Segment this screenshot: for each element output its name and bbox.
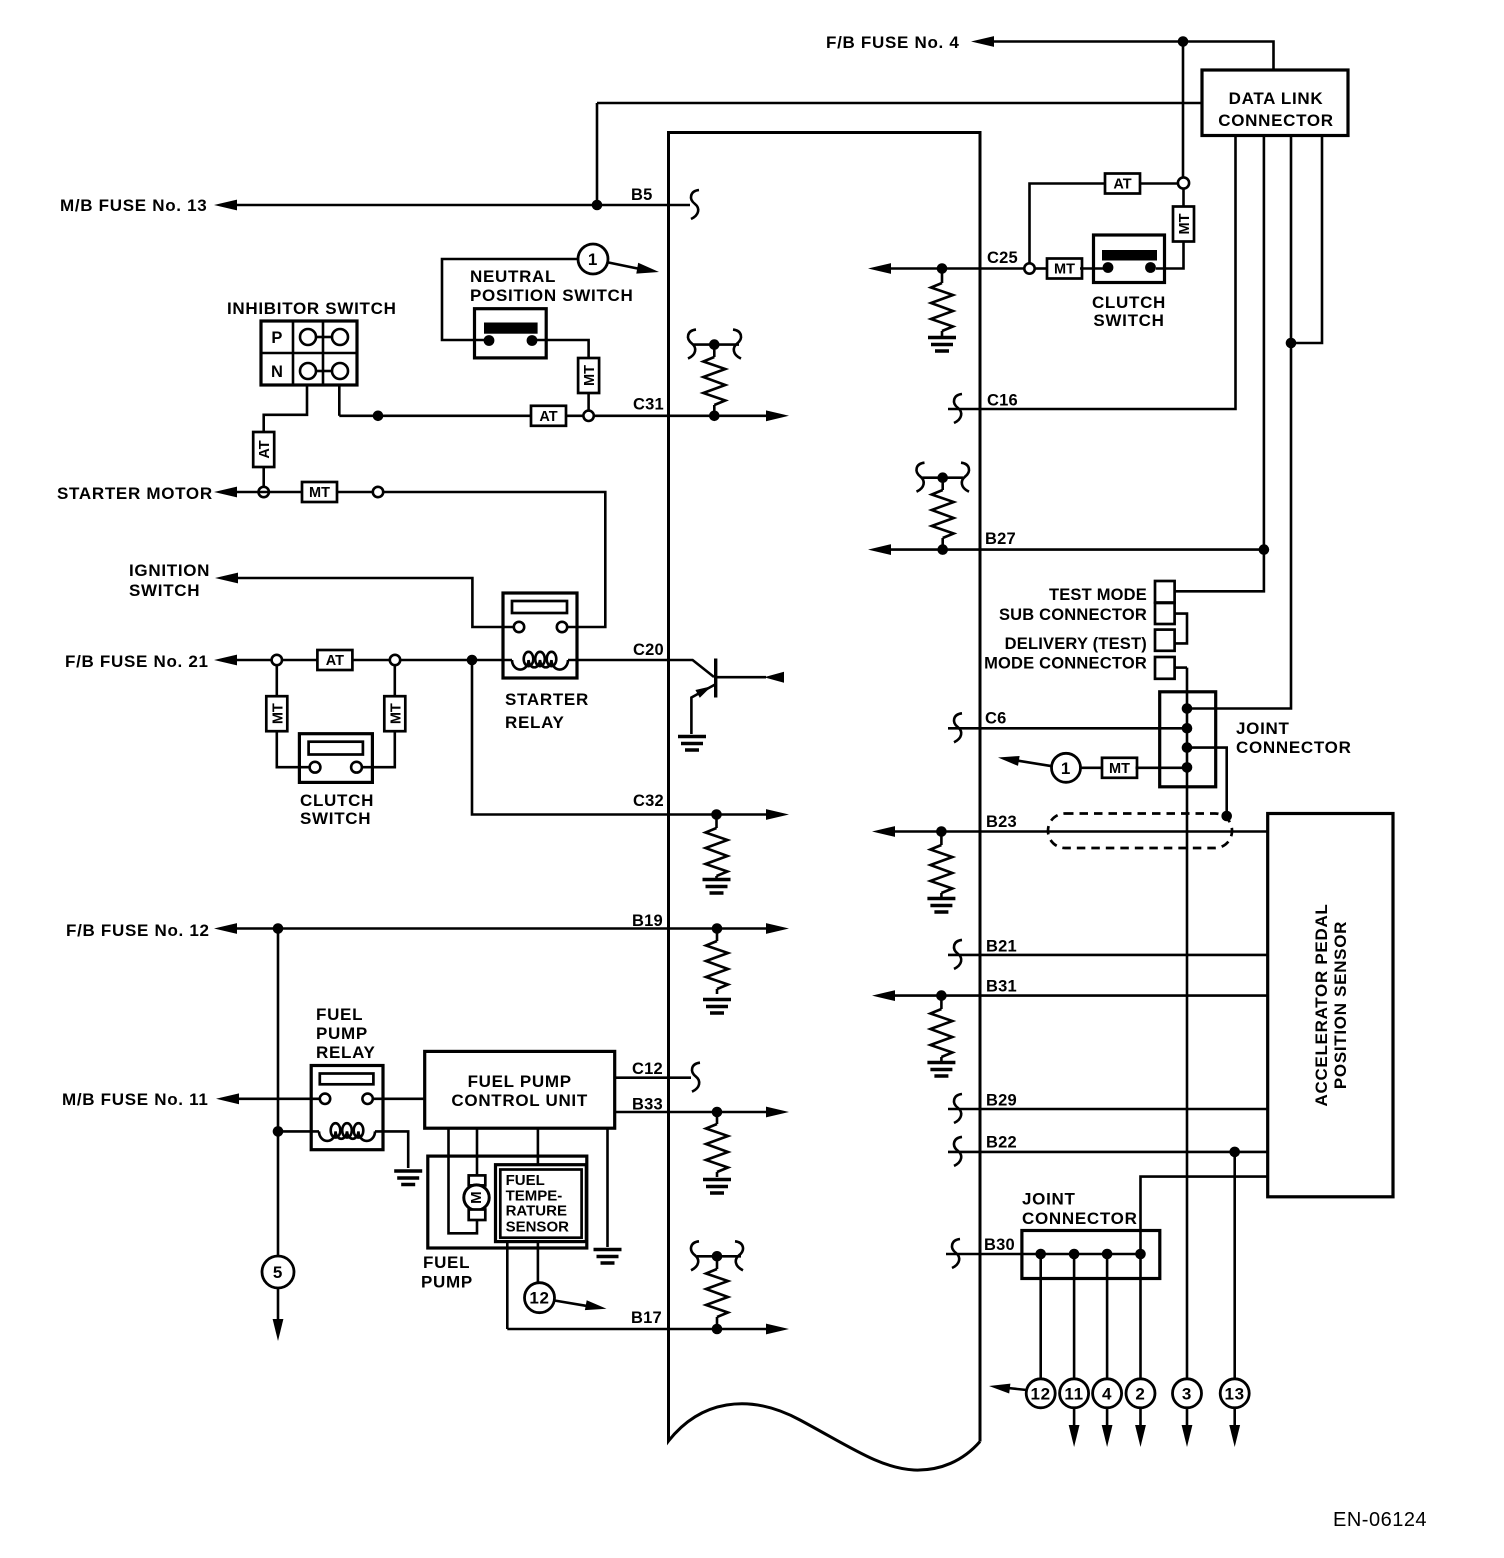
svg-text:MT: MT (1054, 262, 1075, 278)
wire - sensor lead to node 12 (537, 1242, 540, 1283)
inhibitor switch P contacts (300, 329, 348, 345)
pin label B30 (984, 1236, 1015, 1254)
label N (271, 363, 283, 381)
label FUEL PUMP CONTROL UNIT (451, 1072, 588, 1110)
ground - fuel pump relay coil (394, 1171, 422, 1185)
connector - test mode sub pin 1 (1155, 581, 1175, 603)
ground - transistor emitter (678, 737, 706, 751)
wire - node 2 tail (1139, 1408, 1142, 1426)
svg-text:IGNITION: IGNITION (129, 561, 210, 580)
svg-text:1: 1 (588, 250, 598, 269)
break - B29 (954, 1094, 962, 1123)
break - left (above B27) (917, 463, 925, 492)
ECM boundary (control module outline with torn bottom edge) (669, 133, 981, 1471)
arrow to F/B FUSE No. 4 (971, 36, 994, 47)
junction - B22 / node 13 tap (1229, 1147, 1240, 1158)
label JOINT CONNECTOR (1236, 719, 1352, 757)
wire - MT to clutch switch 2 (1156, 242, 1184, 269)
block - FUEL PUMP CONTROL UNIT box (425, 1051, 615, 1128)
svg-text:SWITCH: SWITCH (300, 809, 371, 828)
wire - neutral position switch to node 1 (442, 259, 578, 340)
svg-text:B29: B29 (986, 1092, 1017, 1110)
wire - fuse12 vertical to node 5 (277, 929, 280, 1257)
wire - node 4 tail (1106, 1408, 1109, 1426)
wire - APS bottom feed (1141, 1177, 1268, 1254)
wire - sensor lead to B17 (506, 1242, 509, 1329)
junction - B31 resistor tap (936, 990, 947, 1001)
arrow to STARTER MOTOR (214, 487, 237, 498)
svg-text:RATURE: RATURE (506, 1203, 567, 1220)
junction - B27 / DLC pin2 (1259, 544, 1270, 555)
ground - B19 resistor (703, 1000, 731, 1014)
node 5 (circled) (262, 1256, 294, 1288)
switch - NEUTRAL POSITION SWITCH box (475, 309, 547, 358)
svg-text:STARTER MOTOR: STARTER MOTOR (57, 484, 213, 503)
neutral position switch contact bar (484, 323, 538, 334)
junction - joint connector pin 4 (node 1 MT) (1182, 762, 1193, 773)
label EN-06124 (1333, 1509, 1427, 1531)
wire - starter motor line (236, 492, 605, 627)
svg-text:POSITION SENSOR: POSITION SENSOR (1331, 921, 1350, 1089)
svg-text:F/B FUSE No. 4: F/B FUSE No. 4 (826, 33, 960, 52)
wire - AT branch (1140, 182, 1178, 185)
wire - DLC pin 4 (1291, 136, 1322, 344)
svg-text:NEUTRAL: NEUTRAL (470, 267, 556, 286)
svg-text:POSITION SWITCH: POSITION SWITCH (470, 286, 634, 305)
svg-text:PUMP: PUMP (421, 1273, 473, 1292)
wire - node 11 tail (1073, 1408, 1076, 1426)
wire - MT to clutch switch 2 (1080, 267, 1104, 270)
svg-text:B19: B19 (632, 912, 663, 930)
wire - fuse4 drop to AT node (1182, 42, 1185, 178)
ground - B33 resistor (703, 1180, 731, 1194)
wire - AT to C25 node (1030, 184, 1106, 264)
node 3 (circled) (1173, 1379, 1202, 1408)
resistor - B17 pull-up (706, 1256, 728, 1329)
label JOINT CONNECTOR (bottom) (1022, 1190, 1138, 1229)
svg-text:C12: C12 (632, 1060, 663, 1078)
svg-text:FUEL PUMP: FUEL PUMP (468, 1072, 572, 1091)
pin label B5 (631, 186, 653, 204)
svg-text:M/B FUSE No. 13: M/B FUSE No. 13 (60, 196, 207, 215)
wire - joint2 pin3 drop (1106, 1254, 1109, 1379)
svg-text:C6: C6 (985, 710, 1007, 728)
junction - joint connector pin 3 (1182, 742, 1193, 753)
wire - fuse 21 line (236, 659, 503, 662)
ground - B23 resistor (927, 899, 955, 913)
wire - B30 line (946, 1253, 1141, 1256)
wire - AT to terminal (566, 414, 583, 417)
starter relay armature (512, 601, 567, 613)
svg-text:ACCELERATOR PEDAL: ACCELERATOR PEDAL (1312, 903, 1331, 1106)
clutch switch 2 contact bar (1102, 250, 1157, 261)
svg-text:C25: C25 (987, 249, 1018, 267)
wire - MT to clutch switch (277, 731, 310, 767)
wire - NPS right lead (532, 340, 589, 358)
wire - MT to C31 node (587, 393, 590, 411)
wire - AT to starter motor line (262, 467, 265, 487)
svg-text:MT: MT (309, 485, 330, 501)
break - right (above B17) (735, 1241, 743, 1270)
arrow - node 1 into ECM (609, 263, 660, 274)
clutch switch 2 contacts (1103, 262, 1156, 273)
svg-text:F/B FUSE No. 12: F/B FUSE No. 12 (66, 921, 210, 940)
svg-text:MODE CONNECTOR: MODE CONNECTOR (984, 655, 1147, 673)
arrow - node 4 down (1102, 1425, 1113, 1447)
label ACCELERATOR PEDAL POSITION SENSOR (1312, 903, 1350, 1106)
wire - joint2 pin4 drop (1139, 1254, 1142, 1379)
break - B21 (954, 940, 962, 969)
svg-text:13: 13 (1225, 1384, 1245, 1403)
wire - node 1 to MT tag (1081, 766, 1103, 769)
junction - DLC pin3/pin4 (1286, 338, 1297, 349)
svg-text:N: N (271, 363, 283, 381)
pin label C6 (985, 710, 1007, 728)
svg-text:EN-06124: EN-06124 (1333, 1509, 1427, 1531)
pin label B29 (986, 1092, 1017, 1110)
arrow - C31 internal (766, 410, 789, 421)
node 12 (circled, fuel pump) (525, 1283, 555, 1313)
pin label B27 (985, 530, 1016, 548)
switch - CLUTCH SWITCH box (MT) (299, 734, 372, 783)
wire - B22 drop to node 13 (1233, 1152, 1236, 1379)
wire - top bus from B5 vertical to DATA LINK CONNECTOR (597, 102, 1202, 105)
svg-text:AT: AT (1113, 177, 1131, 193)
svg-text:B27: B27 (985, 530, 1016, 548)
connector - JOINT CONNECTOR box (bottom) (1022, 1231, 1160, 1279)
arrow - B31 out (872, 990, 895, 1001)
pin label B23 (986, 813, 1017, 831)
wire - C32 line (472, 660, 768, 815)
wire - B17 line (507, 1328, 768, 1331)
switch - CLUTCH SWITCH box (AT/MT) (1094, 235, 1165, 283)
resistor - B23 pull-down (930, 832, 952, 898)
wire - node 5 tail (277, 1288, 280, 1320)
arrow - node 5 down (273, 1319, 284, 1341)
wire - C6 line (948, 727, 1187, 730)
junction - joint2 pin 3 (1102, 1249, 1113, 1260)
label CLUTCH SWITCH (left) (300, 791, 374, 828)
arrow to M/B FUSE No. 13 (214, 200, 237, 211)
wire - C16 line to DLC (948, 136, 1236, 410)
label FUEL TEMPERATURE SENSOR (506, 1172, 570, 1235)
terminal circle (fuse21 right) (390, 655, 400, 665)
wire - C25 line (890, 267, 1024, 270)
svg-text:11: 11 (1064, 1384, 1083, 1403)
junction - fuel pump relay coil tap (273, 1126, 284, 1137)
arrow - node 12 (bottom) out (989, 1384, 1027, 1394)
node 1 (circled) (578, 244, 608, 274)
wire - MT tag to joint connector (1136, 766, 1188, 769)
svg-text:MT: MT (388, 703, 404, 724)
svg-text:AT: AT (257, 440, 273, 458)
break - left (above B17) (691, 1241, 699, 1270)
label CLUTCH SWITCH (right) (1092, 293, 1166, 330)
wire - B33 line (615, 1111, 768, 1114)
svg-text:AT: AT (326, 653, 344, 669)
pin label B21 (986, 938, 1017, 956)
arrow - node 2 down (1135, 1425, 1146, 1447)
wire - joint connector pin 3 to shield (1187, 748, 1227, 816)
wire - joint2 pin1 drop (1039, 1254, 1042, 1379)
break - B30 (952, 1239, 960, 1268)
svg-text:5: 5 (273, 1263, 283, 1282)
arrow - node 3 down (1182, 1425, 1193, 1447)
label IGNITION SWITCH (129, 561, 210, 600)
svg-text:DATA LINK: DATA LINK (1229, 89, 1324, 108)
node 1 (circled, MT) (1052, 753, 1081, 782)
resistor - B19 pull-down (706, 929, 728, 995)
wire - MT up to fuse21 line (393, 665, 396, 696)
arrow - node 11 down (1069, 1425, 1080, 1447)
label F/B FUSE No. 4 (826, 33, 960, 52)
svg-text:CONNECTOR: CONNECTOR (1236, 738, 1352, 757)
wire - FPCU pin to ground (606, 1128, 609, 1247)
pin label C16 (987, 392, 1018, 410)
svg-text:MT: MT (1177, 213, 1193, 234)
svg-text:C31: C31 (633, 396, 664, 414)
arrow - C25 out (868, 263, 891, 274)
svg-text:B33: B33 (632, 1096, 663, 1114)
svg-text:FUEL: FUEL (316, 1005, 363, 1024)
svg-text:CONTROL UNIT: CONTROL UNIT (451, 1091, 588, 1110)
label M/B FUSE No. 13 (60, 196, 207, 215)
arrow to F/B FUSE No. 21 (214, 655, 237, 666)
pin label B22 (986, 1134, 1017, 1152)
junction - B5 tap (592, 200, 603, 211)
connector - test mode sub pin 2 (1155, 603, 1175, 624)
connector - JOINT CONNECTOR box (1160, 692, 1216, 787)
AT tag (inhibitor left) (253, 432, 274, 467)
break - left (above C31) (688, 330, 696, 359)
svg-text:CONNECTOR: CONNECTOR (1218, 111, 1334, 130)
arrow - B17 internal (766, 1324, 789, 1335)
junction - joint2 pin 4 (1135, 1249, 1146, 1260)
svg-text:JOINT: JOINT (1022, 1190, 1076, 1209)
svg-text:JOINT: JOINT (1236, 719, 1290, 738)
wire - fuse 4 line (993, 42, 1274, 71)
terminal - C31 connector circle (583, 411, 593, 421)
sensor - FUEL TEMPERATURE SENSOR outer box (496, 1165, 587, 1242)
arrow - B19 internal (766, 923, 789, 934)
ground - B31 resistor (927, 1063, 955, 1077)
shield (dashed) around B23 wire (1048, 814, 1232, 849)
terminal circle (AT/MT node) (1178, 177, 1189, 188)
wire - FPCU pin to motor negative (449, 1128, 478, 1233)
svg-text:M: M (468, 1191, 485, 1204)
terminal circle (starter motor line left) (259, 487, 269, 497)
wire - coil feed (278, 1131, 408, 1168)
wire - DLC pin 2 to test mode connector (1175, 136, 1264, 592)
junction - fuse 4 tap (1178, 36, 1189, 47)
junction - shield tap (1221, 811, 1232, 822)
arrow - node 13 down (1229, 1425, 1240, 1447)
wire - B27 line (890, 548, 1264, 551)
resistor - C25 pull-down (931, 269, 953, 337)
svg-text:CONNECTOR: CONNECTOR (1022, 1209, 1138, 1228)
pin label B17 (631, 1309, 662, 1327)
arrow - node 12 out (555, 1300, 607, 1310)
starter relay coil (503, 652, 577, 670)
resistor - B33 pull-down (706, 1112, 728, 1177)
wire - clutch switch right lead (362, 731, 395, 767)
svg-text:SUB CONNECTOR: SUB CONNECTOR (999, 606, 1147, 624)
pin label B19 (632, 912, 663, 930)
pin label C20 (633, 641, 664, 659)
ground - C32 resistor (703, 880, 731, 894)
resistor - C32 pull-down (706, 815, 728, 880)
wire - internal stub with breaks (above B27) (922, 476, 963, 479)
wire - B5 line (236, 204, 690, 207)
motor M1 bottom brush (469, 1210, 486, 1221)
AT tag (clutch switch 2) (1105, 174, 1140, 194)
svg-text:C32: C32 (633, 792, 664, 810)
fuel pump relay armature (320, 1074, 374, 1085)
AT tag (C31 line) (531, 406, 566, 426)
node 13 (circled) (1220, 1379, 1249, 1408)
break - right (above B27) (961, 463, 969, 492)
starter relay contact pins (514, 622, 567, 632)
svg-text:B17: B17 (631, 1309, 662, 1327)
wire - ignition switch to starter relay (237, 578, 514, 627)
inhibitor switch grid (261, 321, 357, 385)
svg-text:M/B FUSE No. 11: M/B FUSE No. 11 (62, 1090, 209, 1109)
arrow - B23 out (872, 826, 895, 837)
resistor - B27 pull-up (932, 478, 954, 550)
svg-text:4: 4 (1102, 1384, 1112, 1403)
wire - MT drop (1182, 189, 1185, 207)
svg-text:RELAY: RELAY (316, 1043, 376, 1062)
pin label B33 (632, 1096, 663, 1114)
wire - test mode to delivery jumper (1175, 614, 1187, 644)
svg-text:PUMP: PUMP (316, 1024, 368, 1043)
svg-text:3: 3 (1182, 1384, 1192, 1403)
label NEUTRAL POSITION SWITCH (470, 267, 634, 305)
label INHIBITOR SWITCH (227, 299, 397, 318)
MT tag (clutch switch 2) (1173, 207, 1194, 242)
clutch switch armature (309, 742, 363, 755)
svg-text:FUEL: FUEL (506, 1172, 545, 1189)
junction - joint connector pin 1 (1182, 703, 1193, 714)
terminal circle (C25 node) (1024, 263, 1034, 273)
wire - internal stub with breaks (above C31) (693, 343, 739, 346)
fuel temperature sensor inner box (500, 1170, 581, 1238)
svg-text:MT: MT (270, 703, 286, 724)
wire - fuse 11 line (238, 1098, 320, 1101)
wire - B19 line (236, 927, 768, 930)
motor M1 body (464, 1185, 489, 1210)
wire - MT drop left (clutch path) (275, 665, 278, 696)
arrow to F/B FUSE No. 12 (214, 923, 237, 934)
node 12 (circled, bottom) (1026, 1379, 1055, 1408)
MT tag (clutch left) (266, 696, 287, 731)
wire - internal stub with breaks (above B17) (697, 1255, 741, 1258)
wire - B22 line (948, 1151, 1268, 1154)
wire - delivery mode to joint connector (1175, 666, 1187, 669)
MT tag (C25 line) (1047, 259, 1082, 279)
svg-text:RELAY: RELAY (505, 713, 565, 732)
wire - DLC pin 3 to joint connector (1187, 136, 1291, 709)
svg-text:2: 2 (1135, 1384, 1145, 1403)
transistor Q1 emitter (691, 684, 716, 734)
svg-text:SWITCH: SWITCH (129, 581, 200, 600)
MT tag (node 1) (1102, 758, 1137, 778)
transistor Q1 collector (717, 672, 784, 683)
junction - B33 resistor tap (712, 1107, 723, 1118)
relay - STARTER RELAY box (503, 593, 577, 678)
junction - stub center (above B17) (712, 1251, 723, 1262)
wire - FPCU pin to motor positive (476, 1128, 479, 1175)
switch - INHIBITOR SWITCH box (261, 321, 357, 385)
svg-text:CLUTCH: CLUTCH (1092, 293, 1166, 312)
arrow - B27 out (868, 544, 891, 555)
node 4 (circled) (1093, 1379, 1122, 1408)
ground - C25 resistor (928, 338, 956, 352)
junction - B27 resistor tap (937, 544, 948, 555)
AT tag (fuse21 line) (317, 650, 352, 670)
junction - B19 resistor tap (712, 923, 723, 934)
svg-text:1: 1 (1061, 759, 1071, 778)
svg-text:F/B FUSE No. 21: F/B FUSE No. 21 (65, 652, 209, 671)
connector - DATA LINK CONNECTOR box (1202, 70, 1348, 136)
svg-text:TEST MODE: TEST MODE (1049, 586, 1147, 604)
svg-text:STARTER: STARTER (505, 690, 589, 709)
junction - fuse12 tap (273, 923, 284, 934)
wire - B23 line (894, 830, 1268, 833)
junction - stub center (above C31) (709, 339, 720, 350)
svg-text:B31: B31 (986, 978, 1017, 996)
relay - FUEL PUMP RELAY box (311, 1066, 383, 1150)
junction - C31/AT branch (373, 411, 384, 422)
arrow to M/B FUSE No. 11 (216, 1093, 239, 1104)
wire - C31 line (inhibitor to ECM) (339, 414, 531, 417)
svg-text:MT: MT (582, 365, 598, 386)
svg-text:C16: C16 (987, 392, 1018, 410)
wire - vertical drop to B5 line (596, 103, 599, 205)
pin label C31 (633, 396, 664, 414)
svg-text:FUEL: FUEL (423, 1253, 470, 1272)
node 2 (circled) (1126, 1379, 1155, 1408)
junction - stub center (above B27) (937, 472, 948, 483)
label M/B FUSE No. 11 (62, 1090, 209, 1109)
arrow - node 1 (MT) out (998, 756, 1052, 766)
label DELIVERY (TEST) MODE CONNECTOR (984, 635, 1147, 673)
wire - inhibitor left lead (264, 385, 307, 432)
svg-text:SWITCH: SWITCH (1093, 311, 1164, 330)
svg-text:CLUTCH: CLUTCH (300, 791, 374, 810)
junction - starter relay coil / C32 branch (467, 655, 478, 666)
connector - delivery mode pin 2 (1155, 657, 1175, 679)
label STARTER MOTOR (57, 484, 213, 503)
wire - C20 line (577, 660, 714, 677)
label TEST MODE SUB CONNECTOR (999, 586, 1147, 624)
sensor - ACCELERATOR PEDAL POSITION SENSOR box (1268, 814, 1393, 1197)
svg-text:C20: C20 (633, 641, 664, 659)
wire - relay to control unit (373, 1098, 425, 1101)
svg-text:B30: B30 (984, 1236, 1015, 1254)
svg-text:B23: B23 (986, 813, 1017, 831)
pin label C32 (633, 792, 664, 810)
arrow - B33 internal (766, 1107, 789, 1118)
ground - FPCU (594, 1250, 622, 1264)
MT tag (clutch right) (384, 696, 405, 731)
wire - joint connector bus (down to node 3) (1186, 668, 1189, 1379)
wire - node 3 tail (1186, 1408, 1189, 1426)
junction - joint2 pin 2 (1069, 1249, 1080, 1260)
pin label B31 (986, 978, 1017, 996)
svg-text:B21: B21 (986, 938, 1017, 956)
break - B5 inside ECM (691, 190, 699, 219)
